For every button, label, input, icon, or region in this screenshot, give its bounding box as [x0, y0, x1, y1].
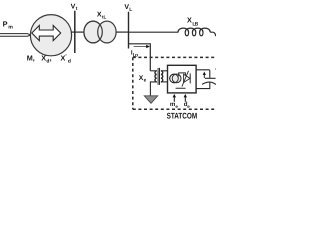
svg-text:LB: LB: [192, 22, 198, 28]
wire VL to inductor: [129, 31, 179, 33]
svg-text:e: e: [175, 104, 178, 109]
wire transformer to bus VL: [116, 31, 129, 33]
svg-text:m: m: [8, 25, 13, 31]
dc wire top: [196, 70, 210, 78]
svg-text:V: V: [215, 68, 216, 75]
wire Xe bottom to ground: [150, 82, 156, 96]
svg-text:X: X: [187, 16, 192, 25]
wire inductor to edge: [210, 32, 216, 36]
transformer XtL: [84, 21, 102, 43]
svg-text:M,: M,: [27, 53, 35, 62]
transformer Xe core: [158, 68, 159, 85]
generator double arrow: [32, 26, 61, 41]
generator M circle: [30, 15, 71, 56]
converter box: [168, 65, 197, 93]
converter valve bar: [189, 73, 191, 83]
dc wire bottom: [196, 82, 210, 89]
bus Vt: [74, 11, 76, 53]
current arrow ILo: [134, 46, 147, 48]
transformer Xe right winding: [161, 71, 163, 82]
svg-text:L: L: [129, 7, 132, 13]
converter diagonal: [182, 71, 189, 87]
statcom dashed box: [133, 57, 216, 109]
arrow de: [184, 97, 186, 102]
svg-text:d: d: [68, 59, 71, 65]
svg-text:,: ,: [50, 53, 52, 62]
tap wire to statcom: [129, 44, 151, 71]
inductor XLB: [178, 28, 210, 36]
bus VL: [128, 12, 130, 49]
wire Xe to converter bottom: [161, 81, 168, 83]
svg-text:e: e: [144, 79, 147, 84]
arrow me: [173, 97, 175, 102]
svg-text:P: P: [3, 19, 8, 28]
ground: [144, 96, 157, 104]
arrow Vdc: [203, 74, 205, 78]
capacitor Cdc bottom curved plate: [202, 82, 216, 85]
transformer Xe top lead: [150, 70, 157, 72]
transformer Xe left winding: [155, 71, 157, 82]
converter circles: [170, 74, 179, 83]
svg-text:tL: tL: [102, 15, 107, 20]
wire Xe to converter top: [161, 70, 168, 72]
shaft (mechanical power input): [0, 34, 31, 37]
svg-text:t: t: [76, 6, 78, 12]
converter bridge rails: [176, 73, 186, 88]
svg-text:STATCOM: STATCOM: [167, 111, 198, 120]
svg-text:e: e: [187, 104, 190, 109]
capacitor Cdc top plate: [205, 77, 216, 79]
converter valve triangle: [184, 74, 190, 82]
wire generator to transformer: [71, 31, 84, 33]
